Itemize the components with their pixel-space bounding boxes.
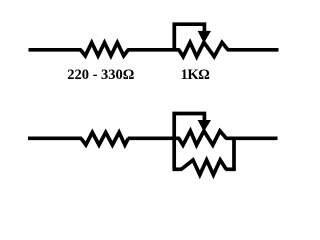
- svg-text:220 - 330Ω: 220 - 330Ω: [67, 67, 134, 83]
- svg-text:1KΩ: 1KΩ: [181, 67, 210, 83]
- potentiometer P1 element (1K ohm): [179, 42, 228, 56]
- wire: bottom-right lead: [225, 136, 277, 140]
- wire: top-right lead: [227, 48, 279, 52]
- wire: bottom-left lead: [28, 136, 82, 140]
- wire: top-left lead: [29, 48, 82, 52]
- wiper arrow of P2: [198, 120, 211, 132]
- wire: P2 wiper loop (left branch down to R3): [174, 114, 204, 170]
- wire: R3 left stub: [173, 167, 183, 171]
- wire: R3 right stub: [225, 167, 235, 171]
- potentiometer P2 element: [179, 131, 227, 145]
- resistor R2: [81, 132, 128, 145]
- resistor R1 (220 - 330 ohm): [81, 43, 129, 56]
- wire: bottom middle segment: [128, 136, 180, 140]
- wire: P1 wiper loop: [174, 24, 204, 51]
- wire: top middle segment: [127, 48, 180, 52]
- resistor R3 (parallel branch): [181, 160, 226, 175]
- wiper arrow of P1: [198, 31, 211, 43]
- wire: right vertical joining R3 to main wire: [232, 137, 236, 170]
